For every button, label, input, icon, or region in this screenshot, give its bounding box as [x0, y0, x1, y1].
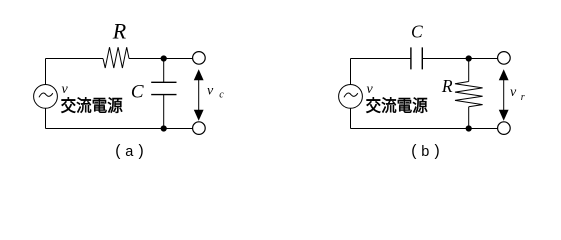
svg-text:): ): [139, 142, 144, 159]
svg-text:v: v: [207, 84, 214, 99]
svg-text:C: C: [131, 82, 144, 103]
svg-text:C: C: [411, 22, 423, 42]
svg-text:a: a: [125, 144, 134, 160]
svg-text:c: c: [219, 90, 224, 101]
svg-text:(: (: [411, 142, 417, 159]
svg-text:v: v: [62, 82, 69, 97]
svg-text:): ): [435, 142, 440, 159]
svg-text:R: R: [441, 76, 453, 96]
svg-text:(: (: [115, 142, 121, 159]
svg-text:r: r: [521, 92, 525, 103]
svg-text:R: R: [112, 19, 127, 44]
svg-text:b: b: [421, 144, 429, 160]
svg-text:v: v: [367, 82, 374, 97]
svg-text:v: v: [510, 85, 517, 100]
